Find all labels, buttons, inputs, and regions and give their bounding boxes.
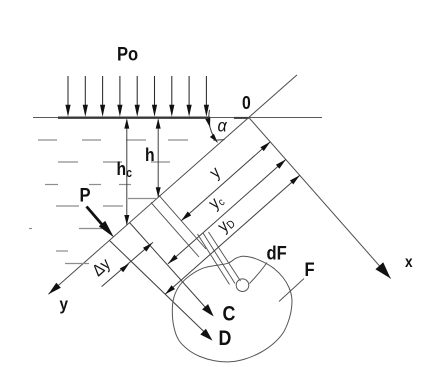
dimension line delta y: [102, 242, 153, 286]
yD dim arrowhead upper: [290, 175, 300, 184]
arrowhead at C: [202, 304, 214, 316]
inclined wall line (y axis): [48, 75, 297, 294]
h top arrowhead: [156, 119, 161, 129]
water level dash y198 x128: [128, 198, 156, 200]
Po load arrow 4: [117, 76, 122, 117]
alpha arc end tick: [214, 139, 225, 142]
dF leader line: [250, 263, 268, 284]
element column line T3: [209, 232, 241, 281]
angle alpha arc: [209, 110, 218, 142]
y dim arrowhead upper: [260, 142, 270, 151]
water level dash y162 x103: [103, 161, 122, 163]
delta y arrowhead at C line: [143, 243, 152, 252]
delta y arrowhead at D line: [120, 264, 129, 273]
svg-text:y: y: [60, 294, 69, 314]
yD dim arrowhead lower: [165, 285, 175, 294]
element dF circle: [236, 279, 249, 292]
svg-text:h: h: [145, 144, 155, 166]
strip edge line S2 from wall: [151, 202, 199, 257]
arrowhead at D: [200, 329, 212, 341]
Po load arrow 7: [169, 76, 174, 117]
water level dash y162 x58: [58, 161, 78, 163]
dimension line y: [181, 142, 270, 221]
Po load arrow 5: [135, 76, 140, 117]
dimension line hc: [126, 120, 128, 226]
svg-text:D: D: [219, 327, 232, 351]
dimension line yD: [165, 175, 300, 294]
water level dash y251 x56: [56, 250, 68, 252]
yc dim arrowhead lower: [168, 255, 178, 264]
water level dash y206 x103: [103, 205, 123, 207]
water level dash y184 x89: [89, 184, 101, 186]
h bottom arrowhead: [156, 187, 161, 197]
Po load arrow 6: [152, 76, 157, 117]
Po load arrow 8: [187, 76, 192, 117]
x axis arrowhead: [375, 262, 390, 278]
area F outline: [172, 256, 292, 362]
water level dash y140 x82: [82, 139, 101, 141]
svg-text:P: P: [80, 184, 91, 206]
hc top arrowhead: [124, 119, 129, 129]
strip edge line S1 from wall: [159, 195, 207, 249]
water level dash y228 x29: [29, 228, 32, 230]
svg-text:α: α: [218, 116, 228, 136]
Po load arrow 3: [100, 76, 105, 117]
water level dash y263 x65: [65, 263, 89, 265]
free surface thick segment near 0: [234, 117, 249, 119]
Po load arrow 1: [65, 76, 70, 117]
yc dim arrowhead upper: [276, 159, 286, 168]
alpha arc arrowhead upper: [205, 118, 210, 127]
force P arrow: [87, 207, 114, 238]
line to centroid C: [130, 223, 210, 313]
water level dash y228 x79: [79, 228, 102, 230]
svg-text:x: x: [405, 254, 413, 271]
water level dash y206 x56: [56, 205, 79, 207]
y axis arrowhead: [48, 283, 60, 295]
Po load arrow 9: [204, 76, 209, 117]
water level dash y140 x126: [126, 139, 146, 141]
water level dash y162 x151: [151, 161, 170, 163]
hc bottom arrowhead: [124, 215, 129, 225]
water level dash y140 x168: [168, 139, 188, 141]
water level dash y184 x45: [45, 184, 58, 186]
svg-text:C: C: [223, 302, 236, 326]
element column line T1: [198, 234, 230, 285]
water level dash y140 x38: [38, 139, 57, 141]
F leader line: [279, 279, 304, 302]
free surface line: [33, 117, 322, 119]
svg-text:0: 0: [242, 92, 251, 114]
line to pressure centre D: [110, 241, 209, 337]
svg-text:F: F: [305, 259, 315, 281]
Po load arrow 2: [83, 76, 88, 117]
x axis line: [249, 118, 391, 279]
water level dash y184 x119: [119, 184, 131, 186]
dimension line h: [157, 120, 159, 198]
svg-text:dF: dF: [267, 242, 287, 264]
free surface thick segment: [58, 116, 210, 118]
dimension line yc: [168, 159, 286, 264]
alpha arc arrowhead lower: [210, 134, 218, 143]
element column line T2: [203, 233, 235, 284]
y dim arrowhead lower: [181, 212, 191, 221]
svg-text:Po: Po: [117, 43, 138, 65]
